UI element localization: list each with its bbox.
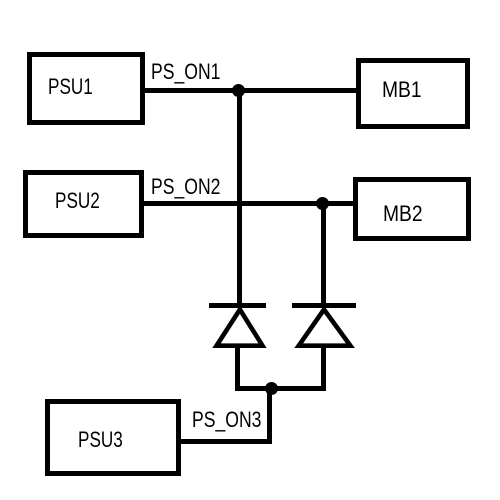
node junction dot at diode common point	[265, 382, 278, 395]
label net PS_ON3	[192, 409, 261, 431]
diode D1 triangle	[205, 300, 275, 355]
wire vertical from diode junction down to PS_ON3	[267, 386, 272, 443]
node junction dot on PS_ON1	[232, 84, 245, 97]
label net PS_ON2	[151, 176, 220, 198]
diode D2 cathode bar	[292, 303, 356, 308]
box PSU1	[27, 52, 145, 125]
box PSU3	[45, 399, 181, 476]
label PSU1	[48, 76, 93, 98]
box MB2	[353, 177, 471, 241]
label PSU3	[78, 429, 123, 451]
label MB2	[383, 203, 423, 225]
diode D1 cathode bar	[209, 303, 266, 308]
box PSU2	[23, 170, 144, 238]
wire vertical below diode D1	[235, 346, 240, 391]
label PSU2	[55, 190, 100, 212]
label net PS_ON1	[151, 61, 220, 83]
wire PS_ON3 horizontal from PSU3	[180, 439, 272, 444]
wire PS_ON1 horizontal PSU1 to MB1	[145, 88, 356, 93]
node junction dot on PS_ON2	[316, 197, 329, 210]
wire vertical from PS_ON1 junction down to diode D1	[237, 88, 242, 303]
wire vertical below diode D2	[321, 346, 326, 391]
diode D2 triangle	[288, 300, 363, 355]
wire vertical from PS_ON2 junction down to diode D2	[321, 201, 326, 303]
box MB1	[356, 58, 470, 129]
label MB1	[382, 79, 422, 101]
wire PS_ON2 horizontal PSU2 to MB2	[144, 201, 353, 206]
wire horizontal joining diode bottoms	[235, 386, 326, 391]
